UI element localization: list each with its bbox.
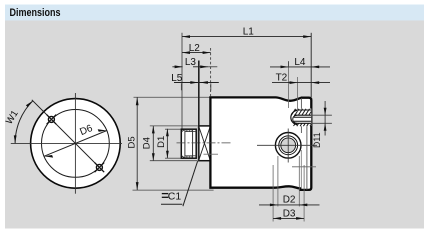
D2 ext left: [277, 156, 279, 207]
svg-text:Dimensions: Dimensions: [10, 7, 61, 19]
D1 dim line: [166, 129, 168, 158]
port section hatch lower: [294, 123, 312, 126]
C1 leader diagonal: [183, 161, 198, 206]
L3 thin continuation: [208, 66, 217, 68]
shaft chamfer diag bottom: [181, 156, 185, 159]
L4 arrow at right pointing left: [311, 66, 319, 69]
flange interface line upper: [300, 98, 302, 109]
ext line T2 left (x=297.5): [297, 77, 299, 112]
D6 arrow lower-left: [44, 155, 53, 158]
horizontal center line: [11, 142, 122, 144]
D2 arrow right outside: [299, 204, 307, 207]
svg-text:D1: D1: [156, 136, 167, 148]
flange tick: [292, 166, 316, 168]
port left cap arc: [291, 110, 297, 124]
D5 extension line top: [134, 96, 211, 98]
svg-text:D5: D5: [126, 136, 137, 148]
port top boundary line: [295, 109, 312, 111]
svg-text:L5: L5: [171, 73, 183, 84]
svg-text:L3: L3: [185, 57, 197, 68]
shaft chamfer vertical: [184, 129, 186, 158]
through hole: [281, 138, 296, 153]
D1 ext bottom: [165, 157, 181, 159]
shaft chamfer diag top: [181, 129, 185, 132]
ext line thread end (x=198.8, thick): [198, 61, 200, 162]
inner face line: [306, 126, 308, 190]
port bore minor line bottom: [294, 120, 311, 122]
T2 dimension line: [272, 82, 330, 84]
X-box diagonal 1: [199, 126, 211, 161]
D11 ext bottom: [312, 122, 332, 124]
svg-text:D4: D4: [142, 137, 153, 149]
D3 arrow right: [296, 217, 304, 220]
thread minor line top: [185, 131, 196, 133]
port white zone: [290, 109, 311, 126]
vertical center line: [74, 93, 76, 194]
D11 dim line: [324, 101, 326, 136]
hole center horizontal line: [257, 144, 317, 146]
D2 dim line: [259, 204, 320, 206]
ext line L4 left (x=288.5): [288, 61, 290, 108]
L3 arrow at 208.2 pointing right: [200, 65, 208, 68]
svg-text:L1: L1: [243, 27, 255, 38]
thread crest ticks top: [186, 129, 191, 131]
svg-text:T2: T2: [276, 72, 288, 83]
circle D2: [279, 136, 298, 155]
D6 arrow upper-right: [98, 129, 107, 132]
bolt circle D6: [42, 109, 110, 177]
C1 glyph bars: [162, 193, 169, 195]
D11 arrow up: [324, 123, 327, 130]
D3 arrow left: [273, 217, 281, 220]
L4 dimension line: [270, 66, 330, 68]
L1 arrow left: [182, 35, 190, 38]
L5 arrow meeting left: [190, 81, 198, 84]
L5 tick right: [210, 83, 212, 90]
D1 ext top: [165, 128, 181, 130]
shaft end chamfer vertical: [192, 129, 194, 158]
svg-text:D2: D2: [283, 195, 296, 206]
D4 dim line: [152, 126, 154, 161]
L3 dimension line: [172, 66, 182, 68]
D3 ext left: [272, 165, 274, 222]
L2 dimension line: [182, 52, 211, 54]
ext line body face dashed (x=210.6): [210, 48, 212, 97]
circle edge ext: [300, 150, 302, 188]
shaft center line: [177, 142, 233, 144]
D3 dim line: [273, 217, 304, 219]
svg-text:D3: D3: [283, 209, 296, 220]
counterbore circle D3: [275, 133, 301, 159]
D4 arrow down: [152, 153, 155, 160]
L1 dimension line: [182, 36, 311, 38]
D5 extension line bottom: [133, 189, 214, 191]
D2 arrow left outside: [270, 204, 278, 207]
L2 arrow right: [203, 51, 211, 54]
D4 ext top: [150, 125, 198, 127]
D5 arrow up: [136, 97, 139, 105]
D1 arrow down: [166, 151, 169, 158]
D6 diameter line: [44, 131, 107, 157]
svg-text:L4: L4: [294, 57, 306, 68]
port bore major line top: [294, 114, 311, 116]
W1 arrow top: [26, 101, 33, 107]
W1 angle arc: [15, 101, 33, 144]
D11 arrow down: [324, 108, 327, 115]
stray tick near body face: [204, 153, 219, 155]
45 deg hole axis diagonal: [32, 100, 104, 172]
L5 tick left: [180, 83, 182, 90]
shaft thread body: [181, 129, 196, 158]
X-box diagonal 2: [199, 126, 211, 161]
header band: [5, 5, 424, 21]
L1 arrow right: [303, 35, 311, 38]
D1 arrow up: [166, 129, 169, 136]
D5 arrow down: [136, 182, 139, 190]
D5 dimension line: [136, 97, 138, 190]
port cap inner arc: [293, 115, 297, 123]
hole top-left: [47, 115, 57, 125]
L2 arrow left: [182, 51, 190, 54]
W1 arrow bottom: [14, 135, 17, 143]
svg-text:C1: C1: [168, 191, 182, 203]
L4 tick left: [288, 62, 290, 68]
collar with flats (X-box): [199, 126, 211, 161]
D4 arrow up: [152, 126, 155, 133]
port section hatch upper: [292, 109, 312, 115]
T2 arrow at left pointing right: [290, 81, 298, 84]
L3 arrow at 182.6 pointing right: [175, 65, 183, 68]
C1 shelf line: [161, 203, 182, 205]
hole bottom-right: [95, 163, 105, 173]
T2 arrow at right pointing left: [311, 81, 319, 84]
D2 ext right: [298, 156, 300, 207]
ext line right face (x=311.2): [310, 33, 312, 97]
D11 ext top: [312, 114, 332, 116]
L5 arrow meeting right: [200, 81, 208, 84]
thread crest ticks bottom: [186, 156, 191, 158]
svg-text:L2: L2: [189, 43, 201, 54]
ext line left (x=182): [181, 33, 183, 129]
D3 ext right: [303, 165, 305, 222]
port bore minor line top: [294, 116, 311, 118]
port bore major line bottom: [294, 122, 311, 124]
svg-text:D11: D11: [312, 132, 322, 148]
outer circle (body): [31, 99, 121, 189]
L4 arrow at left pointing right: [281, 66, 289, 69]
thread minor line bottom: [185, 155, 196, 157]
flange interface line mid: [300, 126, 302, 133]
D4 ext bottom: [150, 160, 198, 162]
hole center vertical line: [287, 129, 289, 163]
L5 dimension line: [174, 82, 219, 84]
body outline: [210, 97, 311, 189]
